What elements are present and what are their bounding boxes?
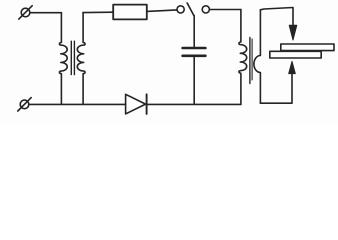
capacitor C1 plates	[183, 47, 206, 50]
transformer T1 secondary winding	[77, 12, 85, 104]
transformer T2 primary winding	[239, 10, 247, 105]
transformer T2 secondary (single turn)	[254, 10, 261, 103]
upper electrode force arrow (down)	[289, 25, 297, 40]
resistor R1	[113, 5, 147, 20]
transformer T1 core	[70, 41, 72, 74]
wire: resistor to switch contact	[147, 10, 177, 12]
wire: terminal X1 to T1 primary	[30, 12, 62, 14]
wire: bottom rail, terminal X2 to diode anode	[29, 103, 126, 105]
switch S blade (open)	[187, 3, 194, 16]
workpiece lower sheet	[270, 51, 321, 58]
wire: T2 secondary top rail to upper electrode	[260, 8, 293, 33]
terminal X2 (bottom-left input)	[18, 98, 31, 111]
wire: switch contact 2 to T2 primary	[210, 9, 241, 11]
workpiece upper sheet	[281, 44, 334, 51]
lower electrode force arrow (up)	[289, 61, 296, 73]
transformer T1 primary winding	[59, 13, 67, 105]
terminal X1 (top-left input)	[19, 6, 32, 19]
diode VD1	[126, 94, 147, 114]
wire: lower electrode to T2 secondary bottom	[260, 68, 292, 103]
switch S contact 2	[202, 6, 209, 13]
capacitor C1 top lead	[193, 16, 195, 47]
wire: T1 secondary to resistor	[83, 11, 113, 13]
capacitor C1 bottom lead	[193, 57, 195, 104]
switch S contact 1	[177, 6, 184, 13]
wire: bottom rail, diode cathode to T2 primary	[147, 103, 241, 105]
transformer T2 core	[249, 38, 251, 84]
